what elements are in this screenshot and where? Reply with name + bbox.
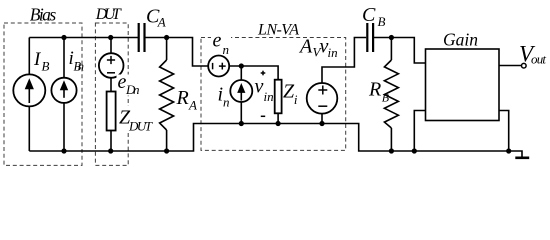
gain block	[426, 49, 500, 121]
wire AVvin top step to CB	[322, 38, 366, 84]
label IB	[33, 49, 50, 74]
svg-text:R: R	[176, 87, 189, 109]
wire gain right ground stub	[499, 111, 509, 152]
ground symbol	[515, 157, 529, 160]
capacitor CA	[139, 23, 145, 52]
label RB	[368, 78, 390, 104]
label en	[211, 29, 231, 57]
junction RB bottom	[389, 148, 394, 153]
junction iBn bottom	[61, 148, 66, 153]
svg-text:A: A	[157, 15, 166, 30]
svg-text:R: R	[368, 78, 381, 100]
svg-text:n: n	[223, 95, 230, 110]
resistor RA	[160, 38, 174, 152]
svg-text:i: i	[294, 92, 298, 107]
current source iBn	[51, 38, 76, 152]
label iBn	[69, 48, 85, 74]
label in	[218, 84, 230, 110]
junction gain lower branch	[412, 148, 417, 153]
current source in	[230, 66, 252, 124]
junction RA bottom	[164, 148, 169, 153]
voltage source eDn	[99, 38, 124, 92]
svg-text:A: A	[188, 98, 197, 113]
svg-text:n: n	[223, 42, 230, 57]
label vin	[255, 76, 274, 104]
impedance ZDUT	[107, 92, 116, 152]
junction ZDUT bottom	[108, 148, 113, 153]
label Vout	[519, 42, 546, 67]
junction RA top	[164, 35, 169, 40]
svg-text:LN-VA: LN-VA	[257, 21, 299, 38]
label eDn	[117, 71, 141, 97]
junction RB top	[389, 35, 394, 40]
current source IB	[13, 38, 45, 152]
DUT enclosure (dashed box)	[95, 23, 128, 165]
svg-text:e: e	[213, 29, 222, 51]
label AVvin	[298, 36, 338, 61]
junction iBn top	[61, 35, 66, 40]
svg-text:Gain: Gain	[443, 29, 478, 49]
svg-text:in: in	[328, 45, 338, 60]
label CB	[362, 4, 386, 29]
svg-text:in: in	[264, 89, 274, 104]
wire output stub	[499, 65, 521, 67]
svg-text:DUT: DUT	[128, 119, 153, 134]
junction in bottom	[239, 121, 244, 126]
wire bottom rail	[29, 124, 522, 158]
wire CB right to gain upper input	[374, 38, 426, 64]
svg-text:B: B	[378, 14, 386, 29]
wire top rail left (IB top to CA left plate)	[29, 37, 138, 39]
svg-text:Dn: Dn	[125, 82, 140, 97]
svg-text:v: v	[255, 76, 264, 98]
Bias enclosure (dashed box)	[4, 23, 82, 165]
svg-text:DUT: DUT	[95, 6, 122, 23]
svg-text:B: B	[382, 90, 390, 104]
junction ground branch	[506, 148, 511, 153]
label RA	[176, 87, 198, 113]
LN-VA enclosure (dashed box)	[201, 38, 346, 151]
impedance Zi	[275, 80, 282, 124]
capacitor CB	[367, 23, 373, 52]
svg-text:Bias: Bias	[30, 5, 57, 25]
svg-text:A: A	[298, 36, 313, 58]
voltage source en	[208, 56, 229, 77]
label Zi	[283, 80, 298, 107]
resistor RB	[384, 38, 398, 152]
dependent source AVvin	[307, 83, 338, 124]
svg-text:Bn: Bn	[74, 60, 85, 74]
junction AVvin bottom	[319, 121, 324, 126]
svg-text:C: C	[362, 4, 376, 26]
label ZDUT	[118, 106, 153, 134]
junction in top	[239, 63, 244, 68]
vin polarity marks	[261, 71, 266, 117]
junction eDn top	[108, 35, 113, 40]
svg-text:B: B	[42, 59, 50, 74]
wire gain lower input branch	[414, 111, 425, 152]
output terminal	[522, 63, 527, 68]
wire en to Zi corner	[229, 66, 278, 80]
svg-text:out: out	[531, 52, 546, 67]
label CA	[146, 6, 166, 30]
wire top rail CA to corner, down to en	[145, 38, 209, 67]
junction Zi bottom	[276, 121, 281, 126]
